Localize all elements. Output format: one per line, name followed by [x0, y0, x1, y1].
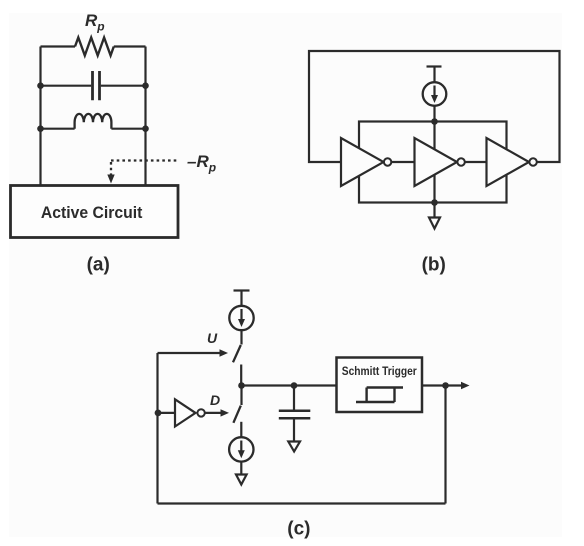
- node dot top rail: [431, 118, 438, 125]
- node dot main (c): [238, 382, 245, 389]
- wire bottom feedback (c): [158, 502, 446, 504]
- wire U control arrow: [158, 352, 221, 354]
- wire main horizontal (c): [242, 384, 337, 386]
- wire switch U to node: [240, 365, 242, 386]
- wire cap top (c): [293, 386, 295, 410]
- wire U2 to U3: [465, 161, 487, 163]
- current source I3 arrow: [240, 441, 242, 453]
- rail rectangle (b): [359, 122, 507, 203]
- wire source to switch U: [240, 330, 242, 344]
- node dot bottom rail: [431, 199, 438, 206]
- node dot output: [442, 382, 449, 389]
- wire left rail (a): [39, 47, 41, 186]
- svg-text:Active Circuit: Active Circuit: [41, 204, 143, 222]
- wire cap bottom (c): [293, 419, 295, 441]
- svg-text:(b): (b): [422, 254, 446, 275]
- wire rail to ground (b): [433, 203, 435, 218]
- wire inductor row left: [41, 128, 75, 130]
- node dot right cap: [142, 82, 149, 89]
- wire top row left stub: [41, 45, 76, 47]
- node dot left ind: [37, 125, 44, 132]
- switch D blade: [233, 406, 240, 423]
- wire node to switch D: [240, 386, 242, 406]
- switch U blade: [233, 345, 241, 362]
- wire outer feedback loop (b): [309, 51, 560, 162]
- node dot cap top: [291, 382, 298, 389]
- current source I1 (b): [423, 82, 447, 106]
- wire D control arrow: [205, 412, 221, 414]
- hysteresis symbol: [356, 388, 403, 403]
- wire right vertical feedback (c): [444, 386, 446, 504]
- wire capacitor row right: [101, 85, 146, 87]
- inverter U4 (c): [175, 399, 196, 426]
- wire U1 to U2: [391, 161, 414, 163]
- wire right rail (a): [144, 47, 146, 186]
- capacitor C (c): [279, 411, 311, 418]
- dotted line -Rp horizontal: [111, 159, 178, 161]
- resistor Rp: [75, 38, 114, 56]
- box Schmitt Trigger: [337, 358, 423, 413]
- wire top row right stub: [114, 45, 146, 47]
- ground cap (c): [288, 442, 300, 452]
- svg-text:(c): (c): [287, 519, 310, 540]
- node dot right ind: [142, 125, 149, 132]
- supply bar (b): [427, 65, 442, 67]
- wire supply to source (b): [433, 67, 435, 83]
- wire supply to source (c): [240, 291, 242, 306]
- svg-text:D: D: [210, 392, 220, 408]
- current source I1 arrow: [433, 86, 435, 97]
- wire Schmitt output: [422, 384, 462, 386]
- current source I3 (c bottom): [229, 437, 253, 461]
- node dot inverter input (c): [155, 410, 162, 417]
- inverter U3 (b): [487, 138, 530, 186]
- ground I3 (c): [236, 475, 247, 485]
- current source I2 arrow: [240, 309, 242, 321]
- arrowhead -Rp: [107, 175, 114, 184]
- wire source to ground (c): [240, 462, 242, 475]
- wire switch D to source: [240, 422, 242, 437]
- inverter U1 (b): [341, 138, 384, 186]
- svg-text:Schmitt Trigger: Schmitt Trigger: [342, 366, 417, 378]
- wire inverter input (c): [158, 412, 175, 414]
- inverter U2 (b): [415, 138, 458, 186]
- ground (b): [429, 218, 440, 229]
- supply bar (c): [234, 289, 250, 291]
- wire capacitor row left: [41, 85, 92, 87]
- inductor L (a): [75, 114, 112, 129]
- wire inductor row right: [111, 128, 145, 130]
- wire left vertical (c): [156, 353, 158, 504]
- capacitor C (a): [93, 71, 100, 100]
- box Active Circuit: [11, 186, 179, 238]
- wire source to rail (b): [433, 106, 435, 122]
- output arrowhead: [461, 382, 470, 389]
- wire center column (b): [433, 122, 435, 203]
- svg-text:U: U: [207, 330, 218, 346]
- dotted line -Rp vertical: [110, 162, 112, 176]
- svg-text:(a): (a): [87, 254, 110, 275]
- current source I2 (c top): [229, 306, 253, 330]
- node dot left cap: [37, 82, 44, 89]
